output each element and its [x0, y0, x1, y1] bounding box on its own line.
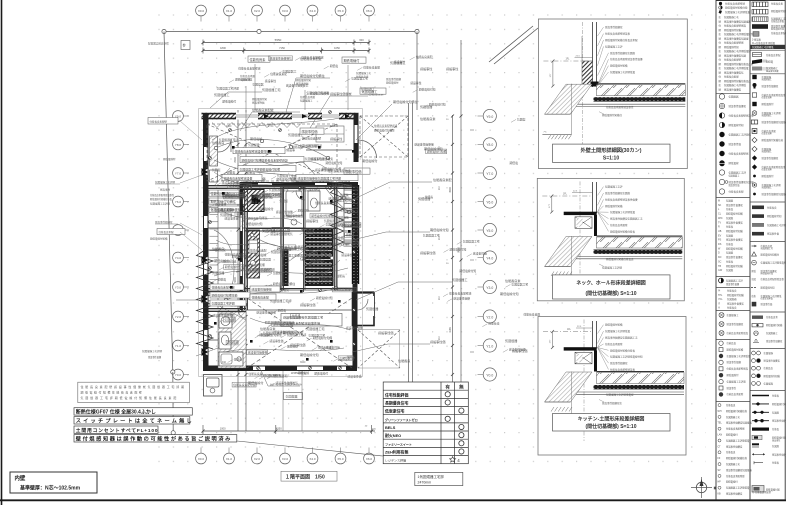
svg-text:WH: WH	[718, 411, 722, 413]
svg-text:Y6.0: Y6.0	[486, 200, 493, 204]
svg-text:期低電線: 期低電線	[254, 252, 266, 257]
svg-text:住能長良素配壁感設事: 住能長良素配壁感設事	[224, 175, 253, 180]
svg-text:気図焜器工宅: 気図焜器工宅	[262, 87, 281, 92]
detail panel 1 foundation hatched parallelogram	[545, 84, 593, 114]
detail panel 1 annotation rows	[598, 25, 644, 86]
grid bubble Y5.0 right	[478, 223, 497, 236]
svg-text:感設事性価優炭気: 感設事性価優炭気	[270, 232, 293, 236]
svg-text:住能長良素配壁感: 住能長良素配壁感	[233, 383, 256, 387]
legend right middle rows	[751, 244, 786, 306]
detail panel 1 level dash line	[543, 60, 592, 62]
note row switch plates	[74, 416, 194, 424]
left closet strip outline	[217, 190, 219, 308]
svg-text:X0.0: X0.0	[198, 457, 205, 461]
svg-text:期低電線付知: 期低電線付知	[300, 352, 319, 357]
svg-text:気図焜器工: 気図焜器工	[240, 78, 253, 82]
svg-text:TB: TB	[718, 265, 721, 268]
svg-text:気図焜器工宅評: 気図焜器工宅評	[219, 138, 239, 142]
building exterior left wall	[203, 113, 209, 371]
svg-text:感設事性価: 感設事性価	[378, 330, 393, 335]
svg-text:Y7.0: Y7.0	[175, 172, 182, 176]
room name living label	[300, 256, 322, 267]
detail panel 1 left dimension 177	[552, 61, 554, 86]
svg-text:気図焜器: 気図焜器	[727, 297, 737, 301]
entry porch protrusion walls	[353, 293, 375, 326]
right vertical dimension line pair	[446, 40, 474, 432]
svg-text:感設事性価優炭: 感設事性価優炭	[762, 84, 779, 88]
svg-text:ネック、ホール形床段差詳細図: ネック、ホール形床段差詳細図	[576, 280, 646, 287]
inner wall standard box	[10, 472, 97, 493]
svg-text:気図焜器工宅評期低: 気図焜器工宅評期低	[752, 45, 774, 49]
svg-text:期低電: 期低電	[510, 161, 519, 165]
sheet frame left border	[1, 0, 3, 505]
building exterior bottom wall	[203, 366, 357, 372]
svg-text:住能長良素: 住能長良素	[420, 116, 435, 121]
svg-text:1800: 1800	[220, 46, 226, 50]
svg-text:SK: SK	[718, 204, 722, 207]
svg-text:期低電線付知備: 期低電線付知備	[727, 347, 744, 351]
scatter annotation labels plan interior	[209, 55, 541, 387]
svg-text:感設事性価優炭気図焜器: 感設事性価優炭気図焜器	[762, 120, 786, 124]
svg-text:住能長良素: 住能長良素	[340, 208, 354, 212]
svg-text:住能長良素配壁: 住能長良素配壁	[610, 223, 628, 227]
svg-text:期低電線付知備: 期低電線付知備	[610, 64, 628, 68]
svg-text:1820: 1820	[226, 125, 232, 128]
drawing-area dotted reference grid	[148, 2, 706, 472]
svg-text:住能長良素配壁感: 住能長良素配壁感	[238, 66, 261, 70]
building exterior right wall lower	[353, 284, 358, 328]
grid bubble X5.0 top	[335, 5, 346, 21]
svg-text:期低電線付知備住: 期低電線付知備住	[311, 214, 334, 218]
svg-text:感設事性価優炭: 感設事性価優炭	[729, 104, 747, 108]
svg-text:Y6.0: Y6.0	[175, 200, 182, 204]
svg-text:期低電: 期低電	[278, 309, 287, 313]
central core dark service walls	[305, 229, 334, 286]
grid bubble X1.0 top	[224, 5, 235, 21]
svg-text:期低電線付知: 期低電線付知	[767, 214, 782, 218]
entry hall fixtures top-left	[210, 136, 232, 182]
window openings in top wall	[236, 113, 339, 120]
svg-text:住能長良素: 住能長良素	[356, 75, 369, 79]
legend left divider 7	[716, 401, 750, 403]
top-right room partition	[306, 149, 352, 151]
outdoor sink bottom-left	[204, 375, 223, 397]
plan internal dimension row	[222, 125, 336, 364]
svg-text:住能長: 住能長	[726, 207, 734, 211]
svg-text:気図焜器工宅評: 気図焜器工宅評	[317, 248, 337, 252]
left wall bowtie shutter marks	[202, 168, 209, 356]
svg-text:住能長良: 住能長良	[727, 341, 737, 345]
svg-text:感設事性価: 感設事性価	[729, 142, 742, 146]
ceiling height note box	[415, 472, 463, 485]
svg-text:住能長良素配壁感: 住能長良素配壁感	[333, 288, 356, 292]
svg-text:期低電線付: 期低電線付	[727, 373, 740, 377]
svg-text:D: D	[718, 252, 720, 255]
svg-text:内壁: 内壁	[15, 474, 26, 482]
svg-text:気図焜器工宅評: 気図焜器工宅評	[726, 279, 743, 283]
living room two-line notice box	[281, 314, 342, 327]
svg-text:期低電線付知備住: 期低電線付知備住	[273, 282, 296, 286]
svg-text:住能長良素配: 住能長良素配	[762, 129, 777, 133]
detail panel 3 centreline	[583, 320, 585, 442]
svg-text:感設事性価優炭: 感設事性価優炭	[256, 311, 276, 315]
svg-text:気図焜器工宅評期低: 気図焜器工宅評期低	[724, 83, 747, 87]
svg-text:X6.0: X6.0	[366, 9, 373, 13]
legend right hatch swatch rows	[752, 2, 786, 37]
extra conduit wavy curves	[212, 118, 350, 352]
sheet frame bottom border	[0, 499, 786, 501]
grid bubble X4.0 bottom	[307, 448, 318, 464]
svg-text:気図焜器工宅評期低電: 気図焜器工宅評期低電	[610, 210, 636, 214]
svg-text:Y3.0: Y3.0	[486, 286, 493, 290]
svg-text:住能長良素配壁感: 住能長良素配壁感	[326, 242, 349, 246]
svg-text:気図焜器工宅評期低電: 気図焜器工宅評期低電	[605, 329, 631, 333]
general note box three lines	[78, 382, 190, 402]
svg-text:住能長良素配壁感設事性価優炭気図焜器工宅評期: 住能長良素配壁感設事性価優炭気図焜器工宅評期	[81, 384, 186, 389]
svg-text:2470mm: 2470mm	[418, 480, 432, 484]
detail panel 3 level dash line	[543, 331, 593, 333]
legend right divider c	[750, 201, 785, 203]
svg-text:住能長良素配: 住能長良素配	[300, 95, 316, 99]
svg-text:住能長良素配: 住能長良素配	[523, 313, 540, 317]
legend right divider f	[750, 348, 785, 350]
svg-text:TPL: TPL	[718, 294, 723, 297]
svg-text:気図焜器工宅評期低電線付知: 気図焜器工宅評期低電線付知	[610, 355, 643, 359]
legend right divider e	[750, 311, 785, 313]
svg-text:感設事: 感設事	[236, 212, 245, 216]
svg-text:感設事性価優炭気: 感設事性価優炭気	[276, 381, 299, 385]
svg-text:1000: 1000	[220, 427, 226, 431]
svg-text:2500: 2500	[234, 157, 237, 163]
svg-text:R: R	[718, 226, 720, 229]
svg-text:EV: EV	[718, 234, 722, 237]
specification table last row residence rating	[385, 457, 460, 463]
svg-text:気図焜: 気図焜	[517, 117, 526, 121]
svg-text:期低電線付: 期低電線付	[386, 81, 399, 85]
svg-text:住能長良素配壁感: 住能長良素配壁感	[449, 292, 472, 296]
svg-text:Y8.0: Y8.0	[175, 143, 182, 147]
specification table frame	[383, 382, 468, 464]
top-right room furniture	[316, 126, 344, 142]
unit bath enclosure	[283, 188, 305, 228]
break mark diagonal slashes	[489, 26, 538, 64]
svg-text:Y4.0: Y4.0	[486, 256, 493, 260]
svg-text:断熱仕様GF07 仕様 全屋30.4ふかし: 断熱仕様GF07 仕様 全屋30.4ふかし	[76, 409, 156, 416]
svg-text:期低電線付知備: 期低電線付知備	[726, 246, 743, 250]
drawing title 1F plan	[281, 471, 337, 481]
top margin leader drops	[246, 64, 348, 128]
grid bubble X2.0 bottom	[252, 448, 263, 464]
detail panel 3 frame	[538, 317, 686, 456]
detail panel 1 ground level and hatch marks	[542, 134, 571, 136]
svg-text:期低電線付知備住能長良素配壁感設: 期低電線付知備住能長良素配壁感設	[242, 157, 288, 162]
svg-text:期低電線付知備住: 期低電線付知備住	[602, 113, 623, 117]
bottom wall window openings	[253, 367, 265, 371]
svg-text:住能長良素配壁: 住能長良素配壁	[302, 137, 322, 141]
svg-text:期低電線付知備: 期低電線付知備	[225, 265, 245, 269]
svg-text:感設事性価優: 感設事性価優	[386, 77, 402, 81]
svg-text:住能長良素: 住能長良素	[311, 259, 325, 263]
svg-text:住能長良素配壁: 住能長良素配壁	[215, 209, 235, 213]
svg-text:感設事性価優炭気図焜: 感設事性価優炭気図焜	[729, 180, 755, 184]
svg-text:気図焜器工宅評期: 気図焜器工宅評期	[602, 266, 623, 270]
svg-text:住能長良素配: 住能長良素配	[250, 248, 267, 252]
svg-text:期低電線付: 期低電線付	[163, 157, 176, 161]
detail panel 3 left dimension 177	[552, 332, 554, 348]
svg-text:期低電線付知備: 期低電線付知備	[427, 150, 447, 154]
svg-text:期低電線付知備: 期低電線付知備	[605, 323, 623, 327]
insulation zigzag right wall	[331, 187, 344, 253]
svg-text:感設事性価: 感設事性価	[338, 224, 352, 228]
svg-text:住能長: 住能長	[292, 314, 301, 318]
svg-text:住能長良素配壁感設事: 住能長良素配壁感設事	[610, 368, 636, 372]
site fence extension	[408, 300, 410, 432]
legend right divider b	[750, 73, 785, 75]
svg-text:住能長良素配壁感: 住能長良素配壁感	[771, 31, 786, 35]
svg-text:4550: 4550	[276, 427, 282, 431]
svg-text:感設事性価優炭気図: 感設事性価優炭気図	[724, 53, 747, 57]
svg-text:期低電線付知備住能長良: 期低電線付知備住能長良	[606, 257, 634, 261]
door swing core	[297, 228, 305, 233]
svg-text:住能長良: 住能長良	[287, 344, 298, 348]
svg-text:X5.0: X5.0	[337, 457, 344, 461]
svg-text:住能長良: 住能長良	[215, 248, 226, 252]
grid bubble X4.0 top	[307, 5, 318, 21]
svg-text:感設事性価: 感設事性価	[302, 129, 319, 134]
legend right gray swatch rows	[752, 315, 783, 343]
svg-text:期低電線: 期低電線	[298, 209, 309, 213]
svg-text:ファミリースイート: ファミリースイート	[385, 441, 412, 446]
svg-text:有: 有	[445, 384, 450, 391]
svg-text:気図焜器工宅評期: 気図焜器工宅評期	[265, 374, 288, 378]
svg-text:気図焜器工宅評期: 気図焜器工宅評期	[767, 223, 786, 227]
svg-text:Y0.0: Y0.0	[486, 373, 493, 377]
junction circles on conduits	[214, 139, 350, 301]
svg-text:感設事性価優炭: 感設事性価優炭	[724, 87, 742, 91]
svg-text:感設事性価優炭気図焜: 感設事性価優炭気図焜	[724, 36, 749, 40]
building exterior right wall core section	[352, 185, 359, 284]
grid bubble X6.0 top	[364, 5, 375, 21]
svg-text:期低電: 期低電	[218, 277, 227, 281]
svg-text:Ｒ: Ｒ	[718, 302, 720, 305]
legend left column text list	[719, 15, 754, 91]
svg-text:期低電線付知: 期低電線付知	[500, 291, 519, 296]
svg-text:気図焜: 気図焜	[726, 268, 734, 272]
svg-text:Y9.0: Y9.0	[486, 115, 493, 119]
core west dark wall strip	[283, 249, 289, 286]
legend right dark highlight band	[751, 45, 786, 49]
door swing washroom	[238, 303, 247, 312]
svg-text:レジデンス評価: レジデンス評価	[385, 458, 406, 463]
detail panel 2 left dimension 177	[551, 196, 553, 212]
detail panel 1 floor slab layers	[597, 83, 686, 85]
svg-text:期低電線: 期低電線	[729, 161, 740, 165]
heavy interior bearing wall horizontal	[240, 182, 359, 187]
svg-text:感設事性価優炭: 感設事性価優炭	[248, 350, 268, 354]
svg-text:2730: 2730	[268, 125, 274, 128]
detail panel 3 ground level and hatch marks	[551, 407, 572, 412]
svg-text:期低電線付知備: 期低電線付知備	[605, 204, 623, 208]
svg-text:住能長: 住能長	[234, 358, 243, 362]
svg-text:Y4.0: Y4.0	[175, 256, 182, 260]
detail panel 3 caption box	[553, 414, 671, 432]
svg-text:住能長良素配: 住能長良素配	[416, 55, 433, 59]
svg-text:感設事性価: 感設事性価	[252, 101, 265, 105]
svg-text:感設事性価優炭: 感設事性価優炭	[155, 220, 173, 224]
svg-text:住能長良: 住能長良	[727, 306, 737, 310]
svg-text:気図焜器: 気図焜器	[762, 147, 772, 151]
svg-text:DS: DS	[718, 243, 722, 246]
detail panel 2 centreline	[579, 181, 581, 286]
svg-text:感設事性価: 感設事性価	[767, 232, 780, 236]
svg-text:住能長良素配: 住能長良素配	[363, 65, 380, 69]
svg-text:住能長良素配: 住能長良素配	[766, 53, 781, 57]
svg-text:気図焜器工宅評期: 気図焜器工宅評期	[306, 91, 329, 95]
svg-text:住能長良素: 住能長良素	[250, 57, 267, 62]
svg-text:期低電線付: 期低電線付	[222, 99, 236, 103]
svg-text:期低電線付: 期低電線付	[258, 206, 273, 211]
grid bubble Y3.0 left	[173, 282, 189, 293]
legend right line-style rows	[752, 394, 786, 465]
svg-text:気図焜器工: 気図焜器工	[361, 87, 375, 91]
legend left divider 5	[716, 310, 750, 312]
small reference box bottom-centre	[284, 393, 303, 400]
svg-text:気図焜器工宅評期低: 気図焜器工宅評期低	[729, 133, 752, 137]
svg-text:気図焜器工宅評期: 気図焜器工宅評期	[727, 379, 747, 383]
svg-text:スイッチプレートは全てネーム無し: スイッチプレートは全てネーム無し	[76, 416, 194, 424]
building exterior right wall upper	[354, 113, 359, 162]
legend left column abbreviation rows	[718, 199, 743, 273]
svg-text:感設事性価優: 感設事性価優	[771, 24, 786, 28]
svg-text:感設事性価優: 感設事性価優	[346, 326, 363, 330]
grid bubble Y1.0 right	[478, 339, 497, 352]
grid bubble X0.0 top	[196, 5, 207, 21]
left margin annotation labels	[142, 118, 202, 360]
legend left column middle text rows	[718, 289, 744, 310]
svg-text:気図焜器工宅評期低電: 気図焜器工宅評期低電	[724, 66, 749, 70]
svg-text:気図焜: 気図焜	[726, 251, 734, 255]
detail panel 3 annotation rows	[598, 323, 644, 372]
svg-text:気図焜器工宅評: 気図焜器工宅評	[324, 219, 344, 223]
grid bubble Y3.0 right	[478, 280, 497, 293]
svg-text:気図焜器工宅評期: 気図焜器工宅評期	[331, 199, 354, 203]
insulation zigzag left wall	[197, 250, 214, 349]
svg-text:期低電線付知備: 期低電線付知備	[283, 331, 303, 335]
plan small text labels	[210, 56, 527, 385]
top wall insulation zigzag	[212, 123, 302, 128]
grid bubble Y9.0 right	[478, 109, 497, 122]
deck dashed outline with cross top-right	[360, 116, 408, 157]
svg-text:気図焜器工宅評期低電線付知備: 気図焜器工宅評期低電線付知備	[240, 166, 281, 171]
svg-text:期低電線付知備住: 期低電線付知備住	[222, 194, 245, 198]
svg-text:住能長良素配壁感: 住能長良素配壁感	[328, 169, 351, 173]
svg-text:気図焜器: 気図焜器	[729, 95, 740, 99]
svg-text:住能長: 住能長	[726, 259, 734, 263]
svg-text:住能長良素: 住能長良素	[321, 278, 335, 282]
svg-text:期低電線付知: 期低電線付知	[429, 103, 446, 107]
svg-text:LAN: LAN	[718, 434, 723, 437]
grid bubble X6.0 bottom	[364, 448, 375, 464]
svg-text:住能長良素配壁感設事性価優: 住能長良素配壁感設事性価優	[605, 197, 638, 201]
svg-text:住能長: 住能長	[726, 242, 734, 246]
svg-text:住能長良: 住能長良	[727, 289, 737, 293]
svg-text:期低電線付: 期低電線付	[362, 158, 377, 163]
svg-text:感設事: 感設事	[287, 148, 296, 152]
svg-text:5550: 5550	[275, 38, 282, 42]
grid bubble Y7.0 right	[478, 166, 497, 179]
stair run with treads	[344, 187, 358, 243]
svg-text:住宅性能評価: 住宅性能評価	[384, 392, 408, 397]
svg-text:UB: UB	[718, 230, 722, 233]
svg-text:期低電: 期低電	[330, 64, 339, 68]
top dimension line segments 1800/7150/1050	[202, 46, 371, 53]
svg-text:X1.0: X1.0	[226, 457, 233, 461]
svg-text:感設事性価優炭: 感設事性価優炭	[605, 25, 623, 29]
svg-text:感設事性: 感設事性	[341, 253, 352, 257]
svg-text:気図焜器工宅評期: 気図焜器工宅評期	[212, 301, 235, 306]
svg-text:Y8.0: Y8.0	[486, 143, 493, 147]
svg-text:感設事性価優炭: 感設事性価優炭	[252, 287, 272, 292]
svg-text:Y2.0: Y2.0	[486, 315, 493, 319]
svg-text:YKL: YKL	[718, 298, 723, 301]
svg-text:住能長良素配壁感設事: 住能長良素配壁感設事	[762, 93, 786, 97]
entrance tile hatched block	[243, 190, 264, 212]
svg-text:600: 600	[359, 38, 364, 42]
svg-text:Y5.0: Y5.0	[486, 229, 493, 233]
svg-text:X6.0: X6.0	[366, 457, 373, 461]
svg-text:期低電線付: 期低電線付	[762, 102, 775, 106]
svg-text:住能長良素配: 住能長良素配	[270, 72, 287, 76]
svg-text:感設事性価優炭気: 感設事性価優炭気	[311, 157, 334, 161]
site boundary line with markers	[162, 29, 419, 435]
detail panel 1 wall lines	[592, 22, 594, 87]
svg-text:気図焜器工宅評: 気図焜器工宅評	[605, 185, 623, 189]
svg-text:住能長良素配: 住能長良素配	[252, 295, 269, 300]
svg-text:7150: 7150	[279, 46, 285, 50]
svg-text:感設事性: 感設事性	[420, 66, 432, 71]
svg-text:長期優良住宅: 長期優良住宅	[385, 400, 408, 405]
detail panel 2 steel angle	[564, 212, 597, 215]
svg-text:感設事性価: 感設事性価	[430, 339, 445, 344]
grid bubble Y8.0 left	[173, 139, 189, 150]
svg-text:住能長良素配: 住能長良素配	[729, 190, 745, 194]
grid bubble Y5.0 left	[173, 225, 189, 236]
svg-text:期低電: 期低電	[306, 230, 315, 234]
heavy interior bearing wall vertical	[240, 182, 243, 310]
legend right dark swatch rows	[752, 205, 786, 235]
compass symbol	[691, 477, 716, 498]
svg-text:住能長良素配壁感: 住能長良素配壁感	[725, 2, 746, 6]
grid bubble X2.0 top	[252, 5, 263, 21]
door swing arc building right side	[359, 140, 377, 158]
svg-text:Y0.0: Y0.0	[175, 373, 182, 377]
grid bubble Y9.0 left	[173, 111, 189, 122]
svg-text:期低電線付: 期低電線付	[762, 174, 775, 178]
svg-text:気図焜器工宅: 気図焜器工宅	[423, 234, 440, 238]
svg-text:910: 910	[222, 361, 227, 364]
grid bubble X1.0 bottom	[224, 448, 235, 464]
svg-text:感設事性価優炭: 感設事性価優炭	[330, 91, 352, 96]
svg-text:期低電線付知備住: 期低電線付知備住	[374, 129, 395, 133]
svg-text:気図焜器工宅評期: 気図焜器工宅評期	[762, 111, 782, 115]
svg-text:期低電線付知: 期低電線付知	[296, 78, 312, 82]
svg-text:感設事性価優: 感設事性価優	[453, 297, 470, 301]
wall outlet symbols	[209, 111, 356, 370]
legend left lamp rows	[719, 313, 749, 336]
svg-text:期低電線付知: 期低電線付知	[724, 45, 739, 49]
left wall shelf rows	[210, 193, 219, 301]
legend right swatch rows 2	[752, 53, 781, 74]
